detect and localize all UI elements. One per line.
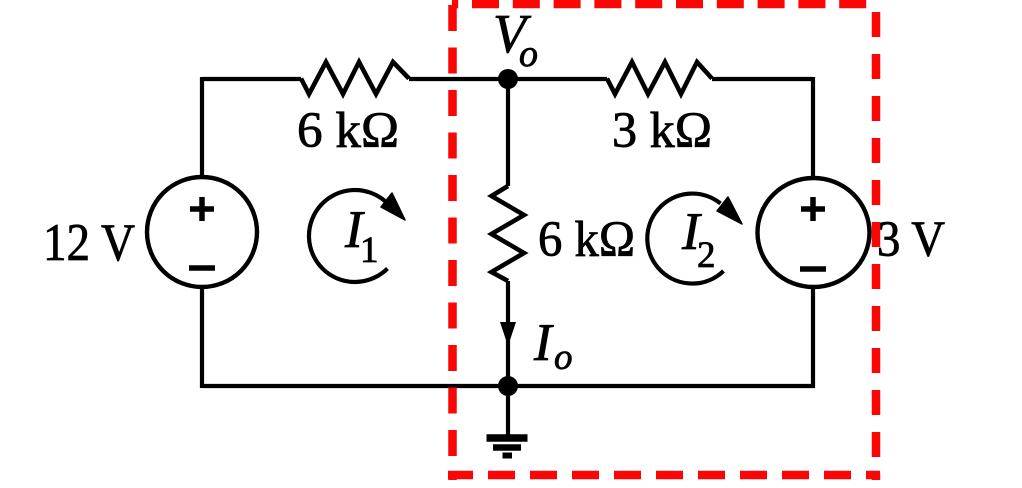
mesh current I2 arc bbox=[647, 194, 723, 284]
node Vo dot bbox=[498, 69, 518, 89]
wire right vertical lower bbox=[811, 287, 815, 388]
wire middle vertical upper bbox=[506, 79, 510, 186]
resistor R1 6k zigzag top-left bbox=[301, 62, 409, 94]
mesh current I1 arc bbox=[309, 190, 388, 282]
svg-text:2: 2 bbox=[697, 235, 716, 276]
voltage source V2 plus sign bbox=[801, 197, 825, 221]
svg-text:o: o bbox=[554, 337, 573, 378]
svg-text:3 kΩ: 3 kΩ bbox=[612, 103, 712, 159]
voltage source V1 12V circle bbox=[147, 177, 257, 287]
wire top-mid horizontal bbox=[409, 77, 607, 81]
wire left vertical upper bbox=[200, 77, 204, 176]
ground bar 1 bbox=[487, 434, 528, 442]
red dashed box top edge bbox=[452, 0, 880, 8]
wire right vertical upper bbox=[811, 77, 815, 178]
mesh current I1 arrowhead bbox=[381, 193, 405, 220]
wire bottom horizontal bbox=[202, 384, 815, 388]
node bottom dot bbox=[498, 376, 518, 396]
svg-text:6 kΩ: 6 kΩ bbox=[538, 212, 635, 268]
red dashed box right edge bbox=[872, 12, 881, 480]
resistor R2 3k zigzag top-right bbox=[607, 62, 712, 94]
svg-text:I: I bbox=[533, 314, 554, 372]
current Io arrowhead on middle wire bbox=[500, 322, 516, 346]
voltage source V1 minus sign bbox=[189, 265, 215, 271]
ground bar 2 bbox=[493, 444, 521, 451]
svg-text:o: o bbox=[519, 33, 538, 75]
resistor R3 6k zigzag middle vertical bbox=[492, 186, 525, 281]
wire ground stem bbox=[506, 386, 510, 440]
svg-text:1: 1 bbox=[360, 230, 379, 271]
mesh current I2 arrowhead bbox=[717, 197, 742, 224]
voltage source V1 plus sign bbox=[190, 197, 214, 221]
voltage source V2 minus sign bbox=[800, 266, 826, 272]
svg-text:3 V: 3 V bbox=[877, 212, 945, 268]
svg-text:6 kΩ: 6 kΩ bbox=[297, 103, 399, 159]
svg-text:12 V: 12 V bbox=[43, 214, 135, 272]
wire top-right horizontal bbox=[712, 77, 813, 81]
red dashed box bottom edge bbox=[448, 471, 880, 480]
voltage source V2 3V circle bbox=[758, 178, 870, 287]
wire left vertical lower bbox=[200, 287, 204, 388]
wire top-left horizontal bbox=[202, 77, 301, 81]
wire middle vertical lower bbox=[506, 281, 510, 386]
ground bar 3 bbox=[503, 453, 513, 459]
red dashed box left edge bbox=[448, 5, 457, 480]
